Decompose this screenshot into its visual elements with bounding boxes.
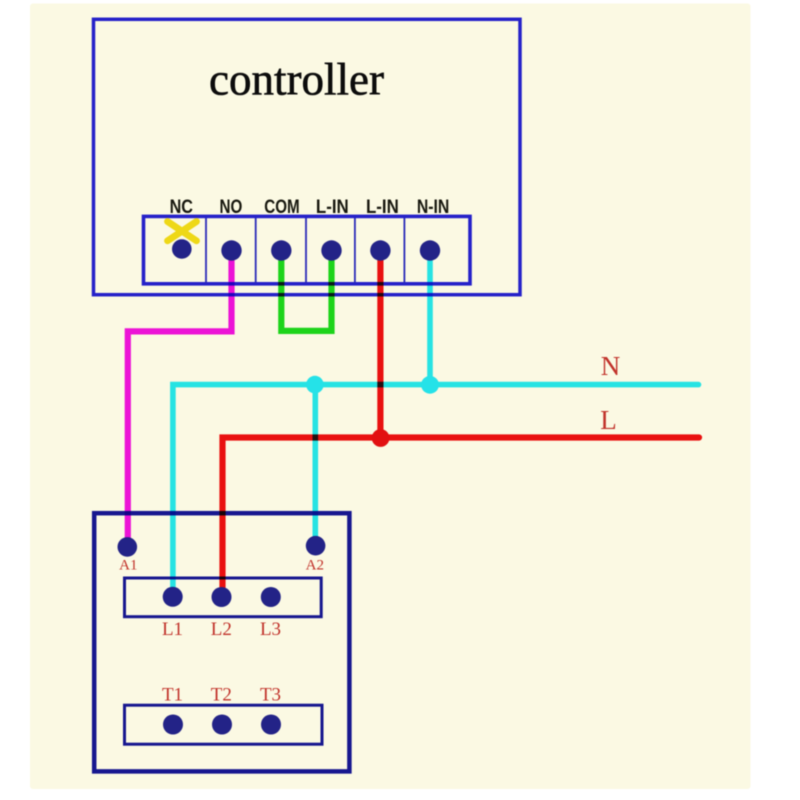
terminal dot L2 bbox=[212, 587, 232, 607]
terminal dot T1 bbox=[163, 715, 183, 735]
svg-text:A2: A2 bbox=[306, 558, 324, 574]
svg-text:controller: controller bbox=[209, 55, 384, 105]
wire NO to A1 (magenta) bbox=[128, 253, 232, 540]
NC crossed-out mark (yellow X) bbox=[168, 222, 197, 241]
svg-text:T1: T1 bbox=[162, 685, 183, 706]
terminal dot T2 bbox=[212, 715, 232, 735]
N line (cyan) with drop to L1 bbox=[173, 385, 699, 593]
terminal dot COM bbox=[271, 240, 291, 260]
svg-text:L: L bbox=[600, 405, 617, 435]
svg-text:L-IN: L-IN bbox=[316, 197, 349, 218]
contactor box bbox=[94, 513, 349, 771]
svg-text:COM: COM bbox=[264, 197, 299, 218]
branch wire N line to A2 (cyan) bbox=[312, 385, 318, 540]
terminal strip bbox=[144, 216, 471, 283]
terminal divider 2 bbox=[255, 218, 257, 283]
terminal dot L-IN (2nd) bbox=[370, 240, 390, 260]
terminal dot T3 bbox=[261, 715, 281, 735]
terminal dot L-IN bbox=[321, 240, 341, 260]
wire L-IN to L line junction (red) bbox=[377, 253, 383, 438]
input terminal block (L row) bbox=[125, 578, 322, 617]
svg-text:T3: T3 bbox=[260, 685, 281, 706]
svg-text:N: N bbox=[601, 351, 621, 381]
terminal dot NC bbox=[172, 239, 192, 259]
svg-text:T2: T2 bbox=[211, 685, 232, 706]
svg-text:L-IN: L-IN bbox=[366, 197, 399, 218]
terminal dot N-IN bbox=[420, 240, 440, 260]
terminal divider 4 bbox=[354, 218, 356, 283]
svg-text:NO: NO bbox=[220, 197, 243, 218]
terminal divider 1 bbox=[205, 218, 207, 283]
coil terminal A1 bbox=[118, 537, 138, 557]
svg-text:NC: NC bbox=[170, 197, 193, 218]
output terminal block (T row) bbox=[125, 705, 323, 744]
terminal divider 3 bbox=[305, 218, 307, 283]
junction dot on N line at N-IN wire bbox=[421, 376, 439, 394]
wire N-IN to N line junction (cyan) bbox=[427, 253, 433, 385]
svg-text:L2: L2 bbox=[211, 619, 232, 640]
terminal divider 5 bbox=[403, 218, 405, 283]
controller box bbox=[94, 19, 521, 294]
terminal dot L3 bbox=[261, 587, 281, 607]
svg-text:L1: L1 bbox=[162, 619, 183, 640]
svg-text:A1: A1 bbox=[119, 558, 137, 574]
junction dot on N line at A2 branch bbox=[306, 376, 324, 394]
svg-text:N-IN: N-IN bbox=[417, 197, 450, 218]
junction dot on L line bbox=[372, 429, 390, 447]
jumper COM to L-IN (green) bbox=[281, 253, 331, 331]
L line (red) with drop to L2 bbox=[223, 438, 700, 594]
coil terminal A2 bbox=[306, 536, 326, 556]
terminal dot L1 bbox=[163, 587, 183, 607]
svg-text:L3: L3 bbox=[260, 619, 281, 640]
terminal dot NO bbox=[221, 240, 241, 260]
